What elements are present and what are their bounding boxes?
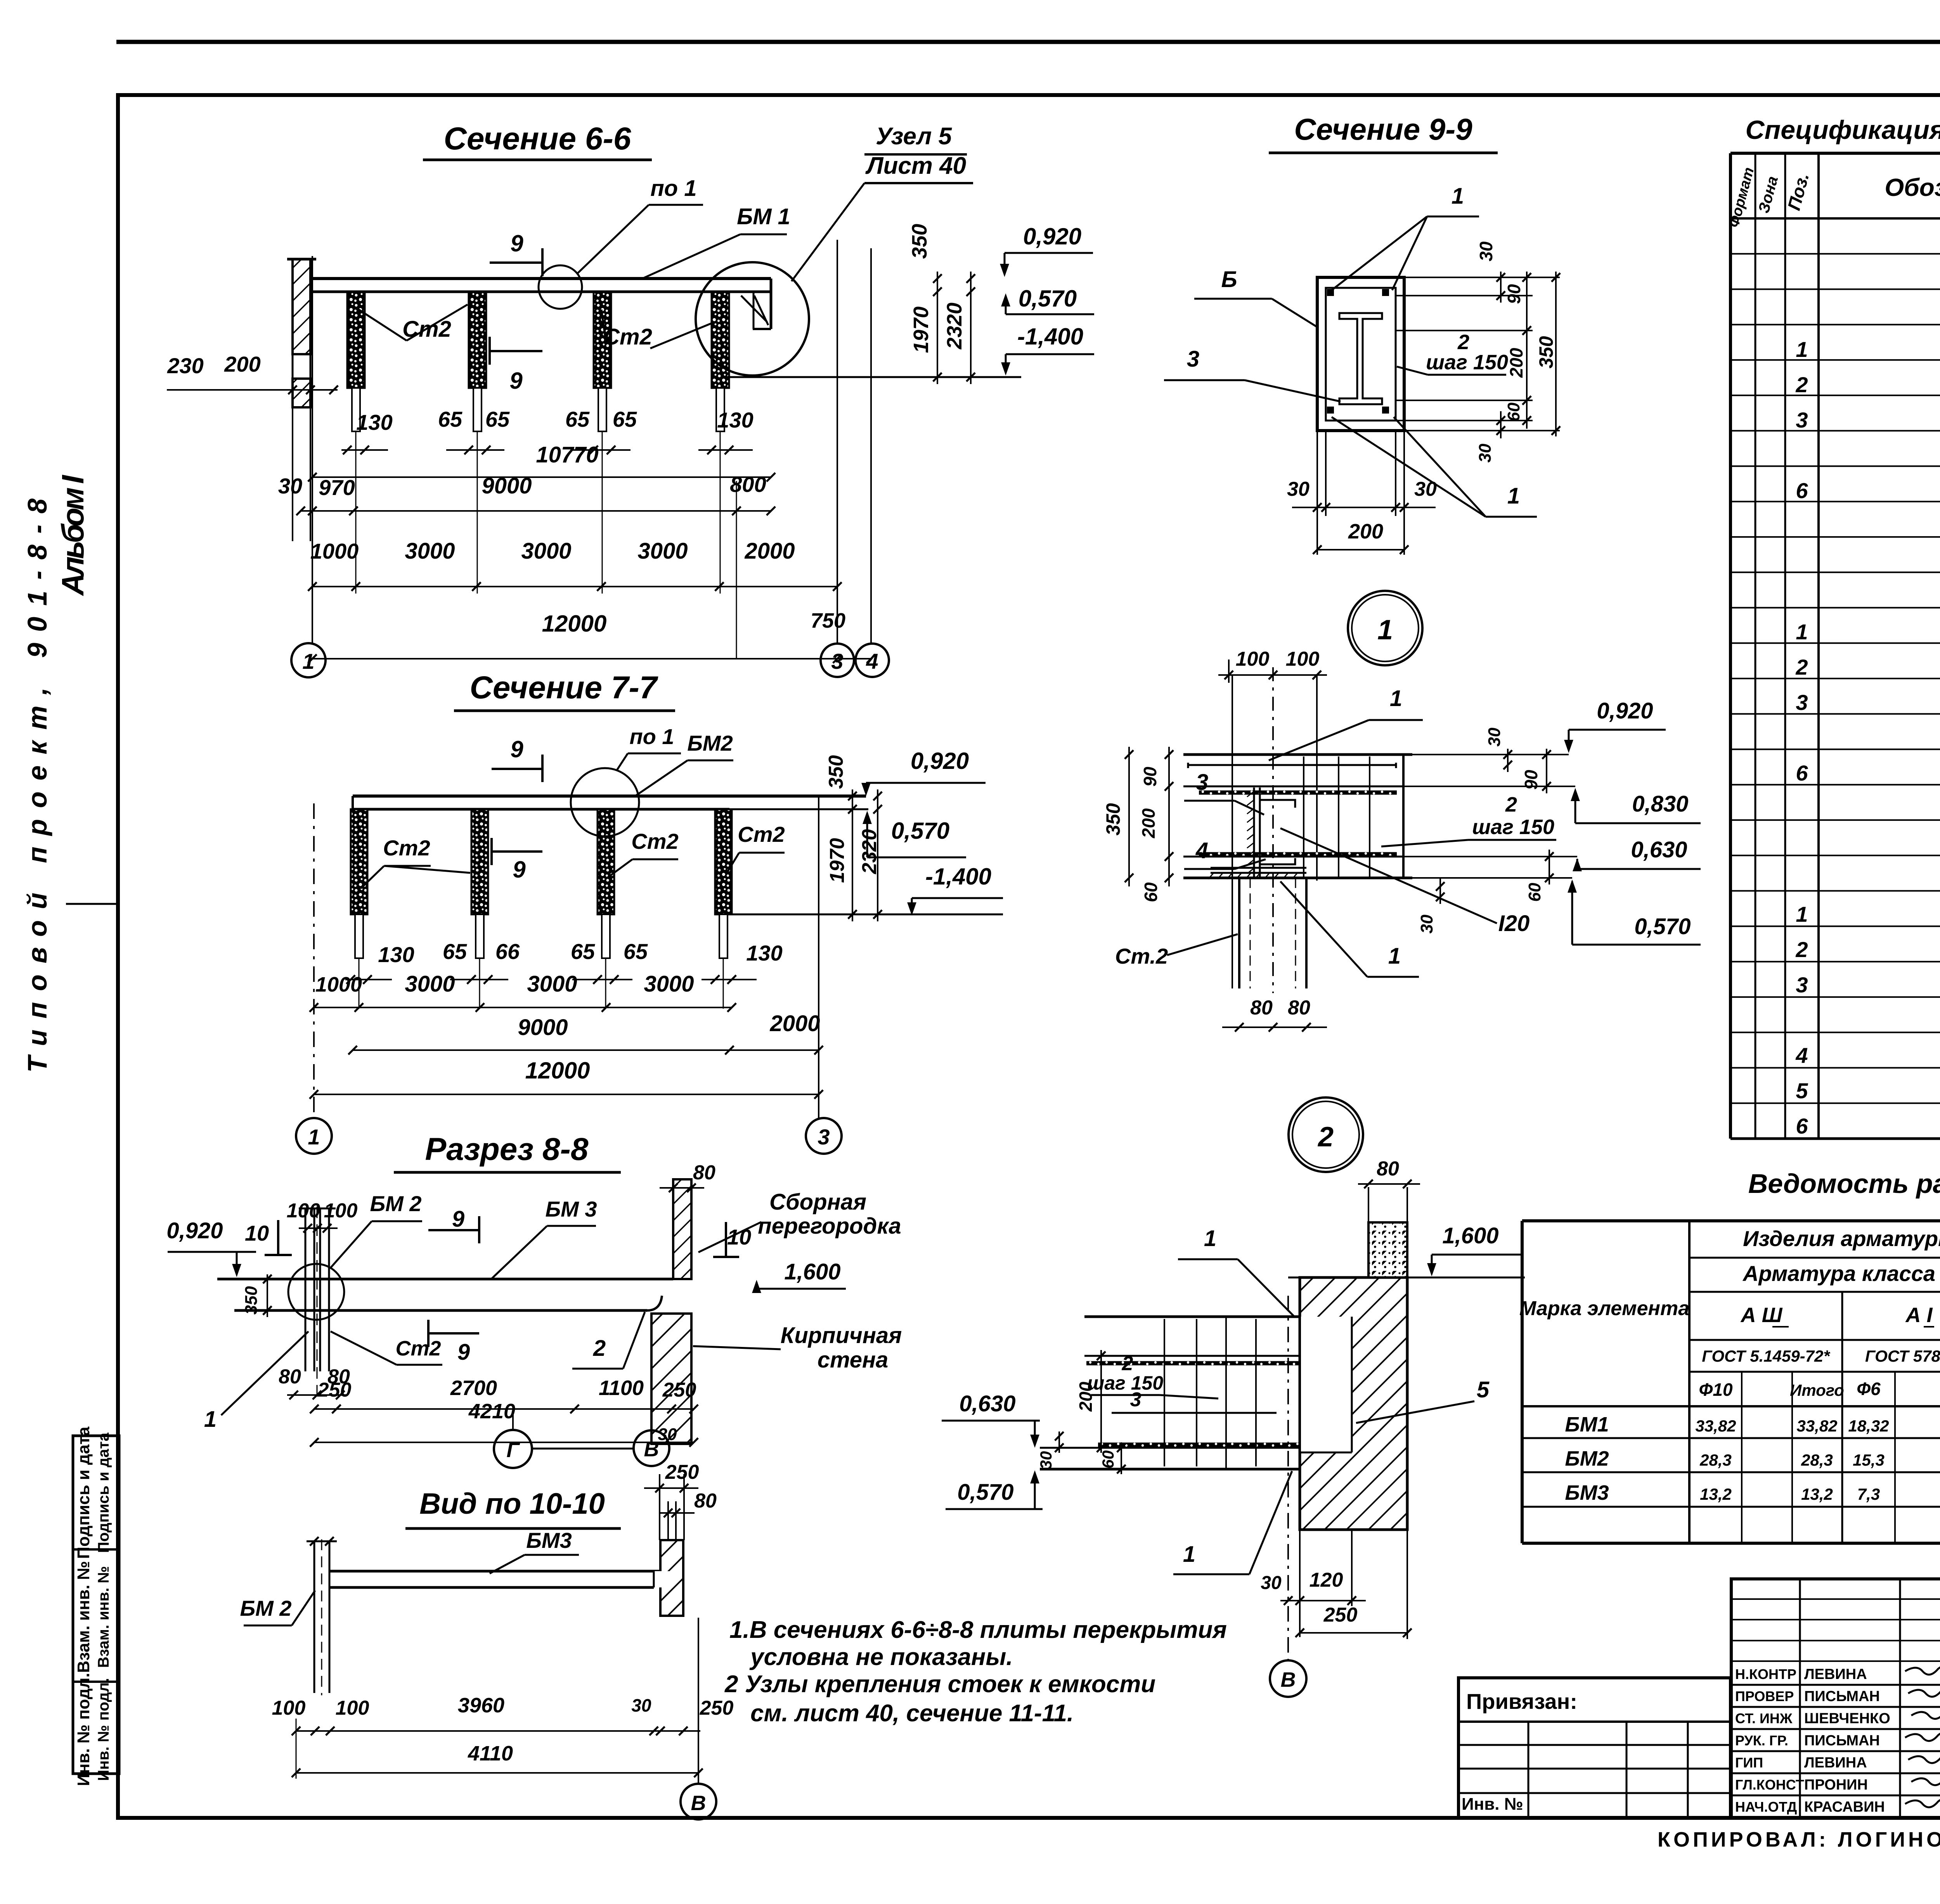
svg-text:В: В xyxy=(1281,1668,1296,1691)
svg-text:1: 1 xyxy=(1452,183,1464,209)
svg-text:3000: 3000 xyxy=(405,538,455,564)
svg-text:Инв. №: Инв. № xyxy=(1462,1795,1523,1814)
svg-text:Взам. инв. №: Взам. инв. № xyxy=(74,1561,93,1673)
svg-text:Б: Б xyxy=(1221,267,1237,292)
svg-text:Ст2: Ст2 xyxy=(383,836,430,860)
svg-text:Сечение 7-7: Сечение 7-7 xyxy=(470,670,658,705)
svg-text:80: 80 xyxy=(694,1490,717,1512)
svg-text:350: 350 xyxy=(825,755,847,789)
svg-text:60: 60 xyxy=(1504,402,1523,421)
svg-text:Спецификация монолитных балок: Спецификация монолитных балок БМ 1÷ БМ 3… xyxy=(1746,115,1940,145)
svg-text:ПРОВЕР: ПРОВЕР xyxy=(1735,1688,1794,1704)
svg-text:2000: 2000 xyxy=(744,538,795,564)
svg-text:0,570: 0,570 xyxy=(1634,914,1691,939)
svg-text:см. лист 40, сечение 11-11.: см. лист 40, сечение 11-11. xyxy=(750,1700,1074,1727)
svg-text:0,630: 0,630 xyxy=(1631,837,1687,862)
svg-text:3960: 3960 xyxy=(458,1694,504,1717)
svg-text:1100: 1100 xyxy=(599,1376,644,1400)
svg-text:1.В сечениях 6-6÷8-8 плиты пер: 1.В сечениях 6-6÷8-8 плиты перекрытия xyxy=(729,1617,1227,1643)
svg-text:Кирпичная: Кирпичная xyxy=(781,1323,902,1348)
svg-text:3000: 3000 xyxy=(521,538,571,564)
svg-text:7,3: 7,3 xyxy=(1857,1485,1880,1503)
svg-text:30: 30 xyxy=(1261,1573,1282,1593)
svg-text:60: 60 xyxy=(1525,883,1544,902)
svg-text:200: 200 xyxy=(1506,348,1526,378)
svg-text:80: 80 xyxy=(1377,1158,1399,1180)
svg-text:3: 3 xyxy=(1187,346,1199,372)
svg-text:9: 9 xyxy=(510,736,523,762)
svg-text:200: 200 xyxy=(1348,520,1383,543)
svg-text:33,82: 33,82 xyxy=(1695,1417,1736,1435)
svg-text:65: 65 xyxy=(565,407,590,431)
svg-text:350: 350 xyxy=(1102,803,1124,836)
svg-text:28,3: 28,3 xyxy=(1801,1451,1833,1469)
svg-text:3000: 3000 xyxy=(644,971,694,997)
svg-text:Ведомость расхода стали на эле: Ведомость расхода стали на элемент, кГ. xyxy=(1748,1168,1940,1199)
svg-text:350: 350 xyxy=(242,1286,261,1315)
svg-text:2: 2 xyxy=(1317,1122,1334,1153)
svg-text:6: 6 xyxy=(1796,478,1808,503)
svg-text:БМ 2: БМ 2 xyxy=(370,1191,422,1216)
svg-text:В: В xyxy=(691,1791,706,1815)
svg-text:Ф10: Ф10 xyxy=(1699,1380,1732,1400)
svg-text:А I: А I xyxy=(1905,1303,1933,1327)
svg-text:0,920: 0,920 xyxy=(166,1218,223,1243)
svg-text:0,570: 0,570 xyxy=(957,1480,1013,1505)
svg-text:Подпись и дата: Подпись и дата xyxy=(95,1432,112,1553)
svg-text:Обозначение: Обозначение xyxy=(1885,173,1940,201)
svg-text:Узел 5: Узел 5 xyxy=(876,123,952,150)
svg-text:по 1: по 1 xyxy=(629,724,674,749)
svg-text:1: 1 xyxy=(308,1125,320,1149)
svg-text:Вид по 10-10: Вид по 10-10 xyxy=(419,1487,605,1520)
svg-text:Сечение 6-6: Сечение 6-6 xyxy=(444,121,632,156)
svg-text:3: 3 xyxy=(1196,770,1208,795)
svg-text:65: 65 xyxy=(485,407,510,431)
svg-text:9000: 9000 xyxy=(482,473,532,499)
svg-text:65: 65 xyxy=(443,939,467,964)
svg-text:2: 2 xyxy=(1505,793,1517,816)
svg-text:0,570: 0,570 xyxy=(1018,286,1077,312)
svg-text:9: 9 xyxy=(452,1206,464,1232)
svg-text:БМ1: БМ1 xyxy=(1565,1413,1609,1436)
svg-text:по 1: по 1 xyxy=(650,176,696,201)
svg-text:12000: 12000 xyxy=(525,1058,590,1084)
svg-text:ЛЕВИНА: ЛЕВИНА xyxy=(1804,1666,1867,1682)
svg-text:1: 1 xyxy=(1377,614,1393,646)
svg-text:800: 800 xyxy=(730,472,766,497)
svg-text:I20: I20 xyxy=(1498,911,1530,936)
svg-text:1970: 1970 xyxy=(909,306,933,353)
svg-text:Изделия арматурные: Изделия арматурные xyxy=(1743,1226,1940,1251)
svg-text:ПИСЬМАН: ПИСЬМАН xyxy=(1804,1688,1880,1705)
svg-text:2: 2 xyxy=(1795,655,1808,679)
svg-text:9: 9 xyxy=(509,368,523,394)
svg-text:ГОСТ 5.1459-72*: ГОСТ 5.1459-72* xyxy=(1702,1347,1830,1365)
svg-text:9: 9 xyxy=(510,230,523,256)
svg-text:12000: 12000 xyxy=(542,611,607,637)
svg-text:130: 130 xyxy=(378,942,414,967)
svg-text:100: 100 xyxy=(1286,648,1320,670)
svg-text:3: 3 xyxy=(1796,973,1808,997)
svg-text:ШЕВЧЕНКО: ШЕВЧЕНКО xyxy=(1804,1710,1890,1727)
svg-text:15,3: 15,3 xyxy=(1853,1451,1885,1469)
svg-text:БМ 2: БМ 2 xyxy=(240,1596,292,1620)
svg-text:Сечение 9-9: Сечение 9-9 xyxy=(1294,112,1472,146)
svg-text:Ф6: Ф6 xyxy=(1857,1379,1881,1399)
svg-text:1: 1 xyxy=(1507,483,1520,509)
svg-text:1: 1 xyxy=(1796,902,1808,926)
svg-text:4110: 4110 xyxy=(468,1742,513,1765)
svg-text:Лист 40: Лист 40 xyxy=(865,152,966,179)
svg-text:1,600: 1,600 xyxy=(1442,1223,1498,1248)
svg-text:Ст2: Ст2 xyxy=(631,829,678,853)
svg-text:3000: 3000 xyxy=(405,971,455,997)
svg-text:Привязан:: Привязан: xyxy=(1466,1689,1577,1714)
svg-text:-1,400: -1,400 xyxy=(1017,324,1083,350)
svg-text:9: 9 xyxy=(513,857,526,883)
svg-text:Сборная: Сборная xyxy=(769,1189,866,1215)
svg-text:Инв. № подл.: Инв. № подл. xyxy=(95,1678,112,1781)
svg-text:ГЛ.КОНСТ: ГЛ.КОНСТ xyxy=(1735,1777,1804,1793)
svg-text:130: 130 xyxy=(356,410,392,434)
svg-text:3: 3 xyxy=(1796,408,1808,432)
svg-text:ПИСЬМАН: ПИСЬМАН xyxy=(1804,1733,1880,1749)
svg-text:30: 30 xyxy=(1287,478,1309,500)
svg-text:80: 80 xyxy=(279,1366,301,1388)
svg-text:120: 120 xyxy=(1309,1569,1343,1591)
svg-text:стена: стена xyxy=(818,1347,889,1373)
svg-text:65: 65 xyxy=(613,407,637,431)
svg-text:2: 2 xyxy=(1795,372,1808,397)
svg-text:200: 200 xyxy=(1076,1381,1096,1412)
svg-text:9000: 9000 xyxy=(518,1015,568,1040)
svg-text:ПРОНИН: ПРОНИН xyxy=(1804,1777,1868,1793)
svg-text:шаг 150: шаг 150 xyxy=(1472,815,1554,839)
svg-text:Разрез 8-8: Разрез 8-8 xyxy=(425,1132,589,1167)
svg-text:30: 30 xyxy=(278,474,302,498)
svg-text:3: 3 xyxy=(1796,690,1808,715)
svg-text:0,920: 0,920 xyxy=(1597,698,1653,724)
svg-text:НАЧ.ОТД: НАЧ.ОТД xyxy=(1735,1799,1797,1815)
svg-text:90: 90 xyxy=(1504,284,1524,304)
svg-text:2: 2 xyxy=(1457,331,1469,354)
svg-text:ЛЕВИНА: ЛЕВИНА xyxy=(1804,1755,1867,1771)
svg-text:1: 1 xyxy=(1796,620,1808,644)
svg-text:Ст2: Ст2 xyxy=(395,1337,441,1360)
svg-text:2: 2 xyxy=(593,1336,606,1361)
svg-text:1: 1 xyxy=(1183,1542,1195,1567)
svg-text:130: 130 xyxy=(717,408,753,432)
svg-text:БМ 3: БМ 3 xyxy=(546,1197,597,1221)
svg-text:30: 30 xyxy=(1476,443,1495,462)
svg-text:13,2: 13,2 xyxy=(1801,1485,1833,1503)
svg-text:0,630: 0,630 xyxy=(959,1391,1015,1416)
svg-text:250: 250 xyxy=(700,1697,734,1719)
svg-text:Н.КОНТР: Н.КОНТР xyxy=(1735,1666,1796,1682)
svg-text:перегородка: перегородка xyxy=(758,1213,901,1239)
svg-text:250: 250 xyxy=(662,1379,696,1401)
svg-text:0,570: 0,570 xyxy=(891,818,949,844)
svg-text:2: 2 xyxy=(1795,937,1808,962)
svg-text:условна не показаны.: условна не показаны. xyxy=(749,1644,1013,1670)
svg-text:60: 60 xyxy=(1141,882,1161,902)
svg-text:30: 30 xyxy=(1476,241,1496,261)
svg-text:Взам. инв. №: Взам. инв. № xyxy=(95,1566,112,1668)
svg-text:10770: 10770 xyxy=(536,442,598,467)
svg-text:200: 200 xyxy=(224,352,260,376)
svg-text:Ст.2: Ст.2 xyxy=(1115,944,1168,968)
svg-text:18,32: 18,32 xyxy=(1848,1417,1889,1435)
svg-text:5: 5 xyxy=(1477,1377,1490,1402)
svg-text:80: 80 xyxy=(693,1161,715,1184)
svg-text:3000: 3000 xyxy=(527,971,577,997)
svg-text:250: 250 xyxy=(317,1379,352,1401)
svg-text:Подпись и дата: Подпись и дата xyxy=(74,1426,93,1559)
svg-text:30: 30 xyxy=(631,1695,651,1715)
svg-text:970: 970 xyxy=(319,475,355,500)
svg-text:Итого: Итого xyxy=(1790,1381,1844,1399)
svg-text:100: 100 xyxy=(272,1697,306,1719)
svg-text:1970: 1970 xyxy=(826,838,849,883)
svg-text:1000: 1000 xyxy=(310,539,359,563)
svg-text:СТ. ИНЖ: СТ. ИНЖ xyxy=(1735,1710,1793,1726)
svg-text:9: 9 xyxy=(457,1340,470,1365)
svg-text:1: 1 xyxy=(204,1407,217,1432)
svg-text:0,920: 0,920 xyxy=(911,748,969,774)
svg-text:250: 250 xyxy=(665,1461,699,1483)
svg-text:БМ2: БМ2 xyxy=(1565,1447,1609,1470)
svg-text:100: 100 xyxy=(1236,648,1270,670)
svg-text:ГОСТ 5781-75: ГОСТ 5781-75 xyxy=(1865,1347,1940,1365)
svg-text:Ст2: Ст2 xyxy=(738,822,785,846)
svg-text:100: 100 xyxy=(336,1697,369,1719)
svg-text:90: 90 xyxy=(1140,767,1160,787)
svg-text:3: 3 xyxy=(831,649,843,673)
svg-text:130: 130 xyxy=(746,941,782,965)
svg-text:В: В xyxy=(644,1438,659,1461)
svg-text:28,3: 28,3 xyxy=(1699,1451,1732,1469)
svg-text:Ст2: Ст2 xyxy=(603,324,652,350)
svg-text:3: 3 xyxy=(1130,1388,1141,1411)
svg-text:1000: 1000 xyxy=(315,973,362,996)
svg-text:Г: Г xyxy=(506,1438,520,1462)
svg-text:80: 80 xyxy=(1288,997,1310,1019)
svg-text:250: 250 xyxy=(1323,1604,1358,1626)
svg-text:4210: 4210 xyxy=(468,1400,515,1423)
svg-text:750: 750 xyxy=(811,609,845,632)
svg-text:2320: 2320 xyxy=(943,303,966,350)
svg-text:6: 6 xyxy=(1796,1114,1808,1138)
svg-text:3: 3 xyxy=(818,1125,830,1149)
svg-text:ГИП: ГИП xyxy=(1735,1755,1763,1771)
svg-text:13,2: 13,2 xyxy=(1700,1485,1732,1503)
svg-text:Инв. № подл.: Инв. № подл. xyxy=(74,1673,93,1786)
svg-text:230: 230 xyxy=(167,353,203,378)
svg-text:-1,400: -1,400 xyxy=(925,864,991,890)
svg-text:10: 10 xyxy=(245,1221,269,1245)
svg-text:66: 66 xyxy=(495,939,520,964)
svg-text:Альбом I: Альбом I xyxy=(55,474,90,596)
svg-text:БМ3: БМ3 xyxy=(1565,1481,1609,1504)
svg-text:А Ш: А Ш xyxy=(1740,1303,1783,1327)
svg-text:6: 6 xyxy=(1796,761,1808,785)
svg-text:3000: 3000 xyxy=(637,538,688,564)
svg-text:65: 65 xyxy=(624,939,648,964)
svg-text:0,920: 0,920 xyxy=(1023,223,1081,249)
svg-text:200: 200 xyxy=(1138,808,1159,838)
svg-text:Марка элемента: Марка элемента xyxy=(1519,1297,1689,1320)
svg-text:2700: 2700 xyxy=(450,1376,497,1400)
svg-text:30: 30 xyxy=(1414,478,1437,500)
svg-text:шаг 150: шаг 150 xyxy=(1426,351,1508,374)
svg-text:БМ 1: БМ 1 xyxy=(737,204,790,229)
svg-text:30: 30 xyxy=(1485,727,1504,746)
svg-text:РУК. ГР.: РУК. ГР. xyxy=(1735,1733,1788,1748)
svg-text:КРАСАВИН: КРАСАВИН xyxy=(1804,1799,1885,1815)
svg-text:2: 2 xyxy=(1122,1352,1133,1375)
svg-text:1: 1 xyxy=(1388,943,1401,969)
svg-text:1: 1 xyxy=(1204,1226,1216,1251)
svg-text:4: 4 xyxy=(1795,1043,1808,1068)
svg-text:60: 60 xyxy=(1099,1451,1117,1469)
svg-text:30: 30 xyxy=(1037,1451,1055,1470)
svg-text:4: 4 xyxy=(1195,838,1208,863)
svg-text:КОПИРОВАЛ: ЛОГИНОВА: КОПИРОВАЛ: ЛОГИНОВА xyxy=(1658,1828,1940,1851)
svg-text:БМ2: БМ2 xyxy=(687,731,733,755)
svg-text:65: 65 xyxy=(571,939,595,964)
svg-text:350: 350 xyxy=(1535,336,1557,369)
svg-text:65: 65 xyxy=(438,407,462,431)
svg-text:1: 1 xyxy=(1796,337,1808,362)
svg-text:2 Узлы крепления стоек к емкос: 2 Узлы крепления стоек к емкости xyxy=(724,1671,1155,1698)
svg-text:1,600: 1,600 xyxy=(784,1259,840,1284)
svg-text:350: 350 xyxy=(908,224,931,259)
svg-text:5: 5 xyxy=(1796,1078,1808,1103)
svg-text:БМ3: БМ3 xyxy=(526,1528,572,1553)
svg-text:2000: 2000 xyxy=(769,1011,820,1036)
svg-text:1: 1 xyxy=(1390,686,1402,711)
svg-text:шаг 150: шаг 150 xyxy=(1087,1372,1163,1394)
svg-text:80: 80 xyxy=(1250,997,1273,1019)
svg-text:0,830: 0,830 xyxy=(1632,791,1688,817)
svg-text:30: 30 xyxy=(1417,914,1436,933)
svg-text:33,82: 33,82 xyxy=(1796,1417,1837,1435)
svg-text:Арматура класса: Арматура класса xyxy=(1742,1261,1935,1286)
